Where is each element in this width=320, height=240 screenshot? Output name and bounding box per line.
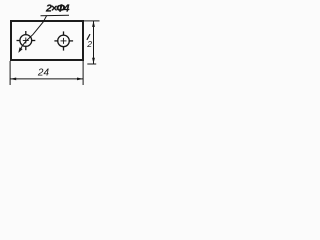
hole 2 outer ticks: [54, 31, 73, 50]
bottom dimension line: [10, 78, 83, 80]
svg-text:2×Φ4: 2×Φ4: [45, 3, 70, 15]
hole 1 outer ticks: [17, 31, 36, 50]
right dimension line: [93, 21, 95, 64]
dimension text 12 (stacked digits): [87, 34, 90, 40]
svg-text:24: 24: [37, 68, 50, 79]
bottom extension line left: [9, 61, 11, 85]
bottom dim arrow right: [77, 78, 83, 81]
bottom dim arrow left: [10, 78, 16, 81]
right extension line bottom: [87, 63, 96, 65]
hole 1 center cross: [23, 38, 29, 44]
right extension line top: [84, 20, 100, 22]
hole 1 (left circle): [20, 35, 32, 47]
hole 2 center cross: [61, 38, 67, 44]
leader shoulder (text underline): [41, 14, 70, 16]
background: [0, 0, 106, 95]
svg-text:2: 2: [86, 39, 92, 49]
leader arrowhead: [18, 47, 22, 53]
leader line to hole callout: [20, 16, 47, 51]
plate outline: [11, 21, 83, 60]
bottom extension line right: [82, 61, 84, 85]
right dim arrow top: [92, 21, 95, 27]
hole 2 (right circle): [58, 35, 70, 47]
right dim arrow bottom: [92, 58, 95, 64]
